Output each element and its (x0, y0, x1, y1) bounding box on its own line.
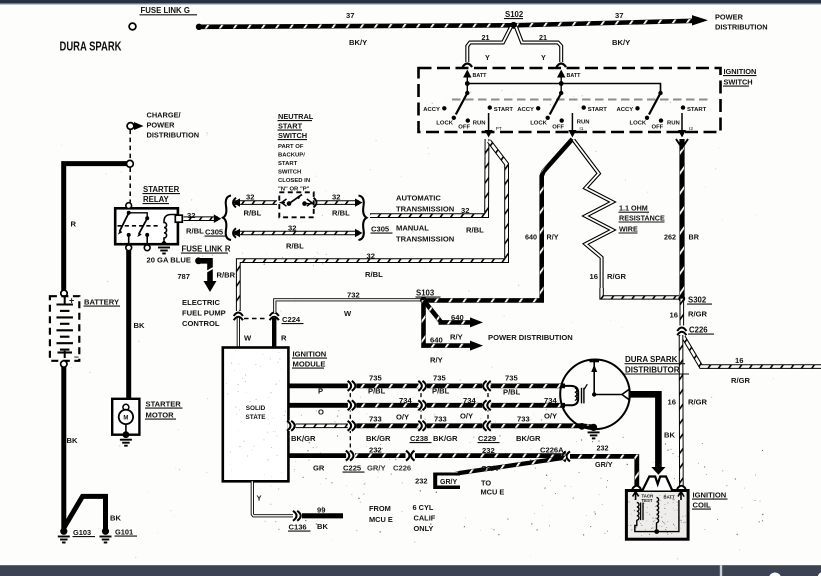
svg-text:Y: Y (485, 53, 490, 62)
wire 32 R/BL lower manual (233, 231, 360, 236)
svg-text:16: 16 (670, 311, 678, 320)
wire BK/GR 733 row (288, 423, 349, 428)
svg-text:PART OF: PART OF (278, 144, 304, 150)
wire Y from module to C136 (252, 481, 293, 516)
svg-text:232: 232 (369, 445, 382, 454)
svg-text:R/BL: R/BL (244, 209, 262, 218)
svg-text:32: 32 (187, 211, 195, 220)
wire 21 Y left branch (467, 27, 511, 62)
svg-text:STATE: STATE (246, 414, 267, 421)
starter motor ground (123, 431, 130, 438)
svg-text:R/Y: R/Y (547, 233, 559, 242)
svg-text:W: W (244, 334, 252, 343)
wire 640 R/Y arrow upper power distribution (424, 300, 473, 322)
starter relay box (115, 208, 178, 244)
ignition coil box (626, 491, 688, 540)
svg-text:BATT: BATT (664, 495, 676, 500)
svg-text:RELAY: RELAY (143, 195, 170, 204)
svg-text:LOCK: LOCK (630, 121, 647, 127)
connector arcs at coil terminals (632, 486, 641, 489)
svg-text:FROM: FROM (369, 504, 391, 513)
svg-text:BR: BR (689, 233, 700, 242)
svg-text:RUN: RUN (577, 120, 590, 126)
svg-text:640: 640 (451, 313, 464, 322)
wire 640 R/Y from switch to S103 (424, 139, 572, 300)
svg-text:R/GR: R/GR (688, 398, 708, 407)
top window bar (0, 0, 821, 3)
svg-text:BK: BK (317, 522, 328, 531)
wire O 734 row (288, 403, 349, 408)
svg-text:733: 733 (434, 415, 447, 424)
svg-text:R/BL: R/BL (332, 209, 350, 218)
wire 16 R/GR branch to right edge (684, 337, 821, 367)
svg-text:MCU E: MCU E (481, 487, 505, 496)
svg-text:SOLID: SOLID (246, 405, 266, 412)
svg-text:GR/Y: GR/Y (481, 464, 500, 473)
svg-text:733: 733 (517, 415, 530, 424)
svg-text:START: START (278, 161, 298, 167)
svg-text:16: 16 (668, 398, 676, 407)
wire 32 R/BL upper to neutral start switch (233, 200, 278, 205)
wire 787 R/BR to fuel pump (199, 261, 211, 283)
svg-text:20 GA BLUE: 20 GA BLUE (147, 256, 191, 265)
svg-text:LOCK: LOCK (530, 121, 547, 127)
svg-text:R/BL: R/BL (286, 242, 304, 251)
svg-text:OFF: OFF (552, 125, 564, 131)
scan speckle noise (61, 90, 774, 559)
svg-text:G103: G103 (73, 528, 91, 537)
module edge connector row3 (287, 421, 295, 431)
svg-text:IGNITION: IGNITION (693, 491, 727, 500)
svg-text:Y: Y (541, 53, 546, 62)
ground G103 (60, 528, 67, 535)
battery positive terminal (61, 290, 67, 296)
charge power distribution node (127, 123, 134, 130)
svg-text:P/BL: P/BL (432, 387, 450, 396)
svg-text:COIL: COIL (693, 501, 712, 510)
svg-text:640: 640 (525, 233, 537, 242)
wire 32 R/BL from switch to C305 junction (370, 139, 487, 216)
svg-text:C224: C224 (282, 315, 301, 324)
svg-text:C305: C305 (371, 225, 390, 234)
connector C224 (269, 311, 279, 320)
svg-text:FUSE LINK R: FUSE LINK R (182, 245, 231, 254)
svg-text:START: START (588, 107, 608, 113)
starter motor symbol (123, 404, 129, 410)
svg-text:BK/Y: BK/Y (349, 38, 367, 47)
wire 16 R/GR C226 down to ignition coil (679, 335, 684, 486)
relay internals (118, 211, 177, 245)
svg-text:37: 37 (615, 11, 623, 20)
neutral start switch box (279, 192, 313, 217)
svg-text:232: 232 (597, 444, 609, 453)
wire 232 GR/Y stub to MCU (456, 458, 566, 474)
svg-text:ACCY: ACCY (423, 107, 440, 113)
ignition switch section 1 (423, 84, 513, 138)
svg-text:735: 735 (369, 374, 382, 383)
svg-text:P: P (318, 387, 323, 396)
svg-text:POWER: POWER (147, 121, 176, 130)
svg-text:S102: S102 (505, 10, 524, 19)
svg-text:CALIF: CALIF (414, 514, 436, 523)
svg-text:R/Y: R/Y (450, 333, 463, 342)
svg-text:R: R (281, 334, 287, 343)
connector at ignition switch BATT left (463, 64, 473, 68)
svg-text:ONLY: ONLY (414, 524, 434, 533)
svg-text:16: 16 (735, 356, 743, 365)
svg-text:BK/Y: BK/Y (612, 38, 630, 47)
svg-text:BK/GR: BK/GR (433, 434, 458, 443)
svg-text:BK: BK (67, 436, 78, 445)
svg-text:TO: TO (481, 478, 491, 487)
svg-text:ACCY: ACCY (517, 107, 534, 113)
svg-text:LOCK: LOCK (436, 121, 453, 127)
svg-text:DISTRIBUTION: DISTRIBUTION (147, 131, 200, 140)
distributor pickup coil (565, 386, 579, 405)
svg-text:1.1 OHM: 1.1 OHM (619, 204, 648, 213)
svg-text:SWITCH: SWITCH (278, 131, 307, 140)
svg-text:POWER DISTRIBUTION: POWER DISTRIBUTION (488, 333, 573, 342)
svg-text:O/Y: O/Y (460, 412, 473, 421)
svg-text:6 CYL: 6 CYL (413, 503, 434, 512)
svg-text:DURA SPARK: DURA SPARK (625, 355, 678, 364)
svg-text:START: START (494, 107, 514, 113)
svg-text:BK/GR: BK/GR (516, 434, 541, 443)
svg-text:RESISTANCE: RESISTANCE (619, 213, 665, 222)
resistance wire 1.1 ohm (574, 140, 613, 290)
svg-text:C226: C226 (689, 326, 708, 335)
svg-text:734: 734 (399, 396, 412, 405)
relay top terminal (126, 203, 132, 209)
svg-text:32: 32 (367, 251, 375, 260)
distributor input triangle (622, 389, 629, 400)
svg-text:OFF: OFF (458, 125, 470, 131)
ground G101 (102, 528, 109, 535)
svg-text:32: 32 (461, 206, 469, 215)
connector column B chevrons (419, 381, 427, 391)
svg-text:733: 733 (369, 415, 382, 424)
connector C305 left half (214, 214, 222, 223)
svg-text:DISTRIBUTION: DISTRIBUTION (715, 23, 768, 32)
svg-text:RUN: RUN (667, 121, 680, 127)
svg-text:C238: C238 (410, 434, 428, 443)
wire 99 BK stub (302, 513, 343, 518)
wire 32 R/BL after neutral start switch (316, 200, 359, 205)
gray dashed line in ignition switch (452, 99, 712, 101)
svg-text:S302: S302 (688, 296, 707, 305)
svg-text:SWITCH: SWITCH (724, 78, 753, 87)
svg-text:640: 640 (430, 336, 443, 345)
dura spark distributor circle (560, 360, 630, 430)
svg-text:O/Y: O/Y (396, 413, 409, 422)
svg-text:C136: C136 (289, 523, 307, 532)
svg-text:NEUTRAL: NEUTRAL (278, 112, 314, 121)
svg-text:MCU E: MCU E (369, 515, 393, 524)
svg-text:P/BL: P/BL (503, 388, 521, 397)
svg-text:ELECTRIC: ELECTRIC (182, 298, 220, 307)
svg-text:C226: C226 (393, 464, 411, 473)
svg-text:C225: C225 (343, 464, 362, 473)
svg-text:W: W (344, 309, 352, 318)
fuse link G loop (129, 23, 136, 30)
svg-text:RUN: RUN (473, 121, 486, 127)
svg-text:I2: I2 (689, 126, 693, 132)
svg-text:R/GR: R/GR (607, 272, 627, 281)
svg-text:32: 32 (246, 193, 254, 202)
svg-text:232: 232 (482, 446, 495, 455)
battery negative terminal (61, 361, 67, 367)
BATT feed left (463, 70, 471, 78)
connector column A chevrons (348, 381, 356, 391)
wire W into module (237, 318, 240, 347)
svg-text:BK: BK (134, 321, 145, 330)
wire 37 BK/Y to power distribution (199, 21, 694, 27)
svg-text:SWITCH: SWITCH (278, 170, 301, 176)
svg-text:IGNITION: IGNITION (293, 350, 327, 359)
BATT feed right (557, 70, 565, 78)
svg-text:735: 735 (433, 374, 446, 383)
svg-text:BATTERY: BATTERY (84, 298, 119, 307)
svg-text:MOTOR: MOTOR (146, 411, 175, 420)
wire BK relay to starter motor (126, 251, 131, 398)
svg-text:BK: BK (664, 431, 675, 440)
svg-text:735: 735 (505, 374, 518, 383)
svg-text:99: 99 (317, 506, 325, 515)
svg-text:C229: C229 (478, 434, 496, 443)
svg-text:FUEL PUMP: FUEL PUMP (182, 309, 226, 318)
wire P 735 row (288, 383, 349, 388)
svg-text:32: 32 (332, 193, 340, 202)
svg-text:787: 787 (177, 272, 190, 281)
svg-text:R/BL: R/BL (466, 226, 484, 235)
svg-text:GR: GR (313, 464, 325, 473)
svg-text:AUTOMATIC: AUTOMATIC (396, 194, 441, 203)
connector half to module W wire (233, 311, 243, 320)
svg-text:R/BL: R/BL (186, 227, 204, 236)
wire 262 BR from switch to S302 (679, 139, 684, 297)
connector C226 bowtie row4 (406, 450, 416, 460)
fuse link R node (195, 257, 202, 264)
distributor rotor (593, 362, 595, 395)
svg-text:CHARGE/: CHARGE/ (147, 111, 181, 120)
wire 732 W from S103 to C224 (275, 300, 423, 313)
svg-text:TRANSMISSION: TRANSMISSION (396, 235, 454, 244)
neutral start switch contacts (280, 194, 314, 206)
svg-text:ACCY: ACCY (617, 107, 634, 113)
svg-text:G101: G101 (115, 528, 133, 537)
svg-text:DISTRIBUTOR: DISTRIBUTOR (625, 365, 680, 374)
svg-text:232: 232 (415, 476, 427, 485)
svg-text:S103: S103 (416, 289, 435, 298)
svg-text:STARTER: STARTER (143, 185, 180, 194)
svg-text:MANUAL: MANUAL (396, 224, 429, 233)
connector C226A row4 (561, 451, 569, 461)
ignition module box (223, 348, 289, 482)
svg-text:BK/GR: BK/GR (291, 434, 316, 443)
svg-text:MODULE: MODULE (293, 360, 326, 369)
svg-text:C305: C305 (205, 228, 224, 237)
wire R battery feed (64, 164, 127, 291)
svg-text:734: 734 (463, 396, 476, 405)
svg-text:BATT: BATT (567, 73, 582, 79)
dashed link C224 (244, 318, 268, 320)
relay bottom terminals (126, 245, 132, 251)
svg-text:BACKUP/: BACKUP/ (278, 153, 305, 159)
svg-text:OFF: OFF (652, 125, 664, 131)
svg-text:FUSE LINK G: FUSE LINK G (141, 6, 190, 15)
svg-text:DURA SPARK: DURA SPARK (60, 39, 123, 54)
svg-text:262: 262 (664, 233, 676, 242)
svg-text:16: 16 (590, 272, 598, 281)
svg-text:PT: PT (496, 126, 502, 132)
svg-text:C226A: C226A (540, 445, 564, 454)
svg-text:21: 21 (539, 33, 547, 42)
starter motor box (112, 399, 139, 435)
svg-text:BK/GR: BK/GR (366, 434, 391, 443)
svg-text:R/BL: R/BL (365, 270, 383, 279)
wire GR 232 row (288, 453, 349, 458)
svg-text:IGNITION: IGNITION (724, 67, 757, 76)
svg-text:START: START (278, 122, 303, 131)
svg-text:I1: I1 (579, 126, 583, 132)
wire 32 R/BL relay to C305 (184, 216, 219, 221)
svg-text:R/Y: R/Y (430, 356, 443, 365)
svg-text:−: − (74, 352, 79, 362)
ignition switch box (419, 68, 721, 132)
svg-text:R/BR: R/BR (217, 271, 236, 280)
wire BK branch to ground G101 (64, 496, 106, 529)
svg-text:GR/Y: GR/Y (440, 479, 457, 486)
connector column C chevrons (482, 381, 490, 391)
svg-text:TEST: TEST (642, 498, 653, 503)
svg-text:R/GR: R/GR (688, 310, 708, 319)
svg-text:CLOSED IN: CLOSED IN (278, 178, 310, 184)
svg-text:R: R (71, 220, 77, 229)
svg-text:TRANSMISSION: TRANSMISSION (396, 205, 454, 214)
relay coil ground (158, 248, 170, 254)
wire 16 R/GR S302 to C226 (679, 299, 684, 326)
svg-text:STARTER: STARTER (146, 400, 182, 409)
ignition switch section 3 (617, 84, 707, 138)
battery (50, 296, 79, 361)
svg-text:GR/Y: GR/Y (367, 464, 386, 473)
svg-text:732: 732 (347, 291, 360, 300)
svg-text:37: 37 (346, 11, 354, 20)
svg-text:WIRE: WIRE (619, 224, 638, 233)
node start of 37 BK/Y wire (196, 24, 202, 30)
connector C305 right half (355, 198, 363, 206)
svg-text:734: 734 (544, 396, 557, 405)
connector at ignition switch BATT right (556, 64, 566, 68)
svg-text:GR/Y: GR/Y (595, 460, 613, 469)
svg-text:O: O (318, 408, 324, 417)
svg-text:21: 21 (482, 33, 490, 42)
svg-text:P/BL: P/BL (368, 387, 386, 396)
ignition coil tower (642, 477, 672, 491)
connector C226 (677, 326, 687, 335)
wire BK distributor to coil (629, 394, 659, 468)
wire 32 R/BL manual bypass (238, 141, 506, 312)
svg-text:O/Y: O/Y (544, 412, 557, 421)
distributor ground (579, 423, 586, 430)
svg-text:Y: Y (257, 494, 262, 503)
relay right terminal (175, 215, 182, 222)
connector C136 (293, 511, 301, 521)
svg-text:R/GR: R/GR (731, 376, 751, 385)
junction node (126, 160, 133, 167)
wire 640 R/Y arrow lower power distribution (424, 300, 473, 345)
splice S302 (678, 295, 685, 302)
svg-text:START: START (687, 107, 707, 113)
svg-text:M: M (123, 415, 128, 421)
dashed wire from charge node (129, 130, 131, 160)
bus line linking switch sections (467, 84, 660, 94)
svg-text:BK: BK (110, 514, 121, 523)
svg-text:32: 32 (288, 224, 296, 233)
connector column dashed lines (349, 386, 351, 456)
svg-text:CONTROL: CONTROL (182, 319, 220, 328)
wire BK battery to ground G103 (61, 367, 66, 529)
wire R into module (272, 318, 276, 347)
bottom window bar (0, 565, 821, 576)
svg-text:BATT: BATT (473, 73, 488, 79)
ignition coil internals (633, 492, 684, 534)
wire 21 Y right branch (516, 27, 561, 62)
svg-text:POWER: POWER (715, 13, 744, 22)
ignition switch section 2 (517, 84, 607, 138)
